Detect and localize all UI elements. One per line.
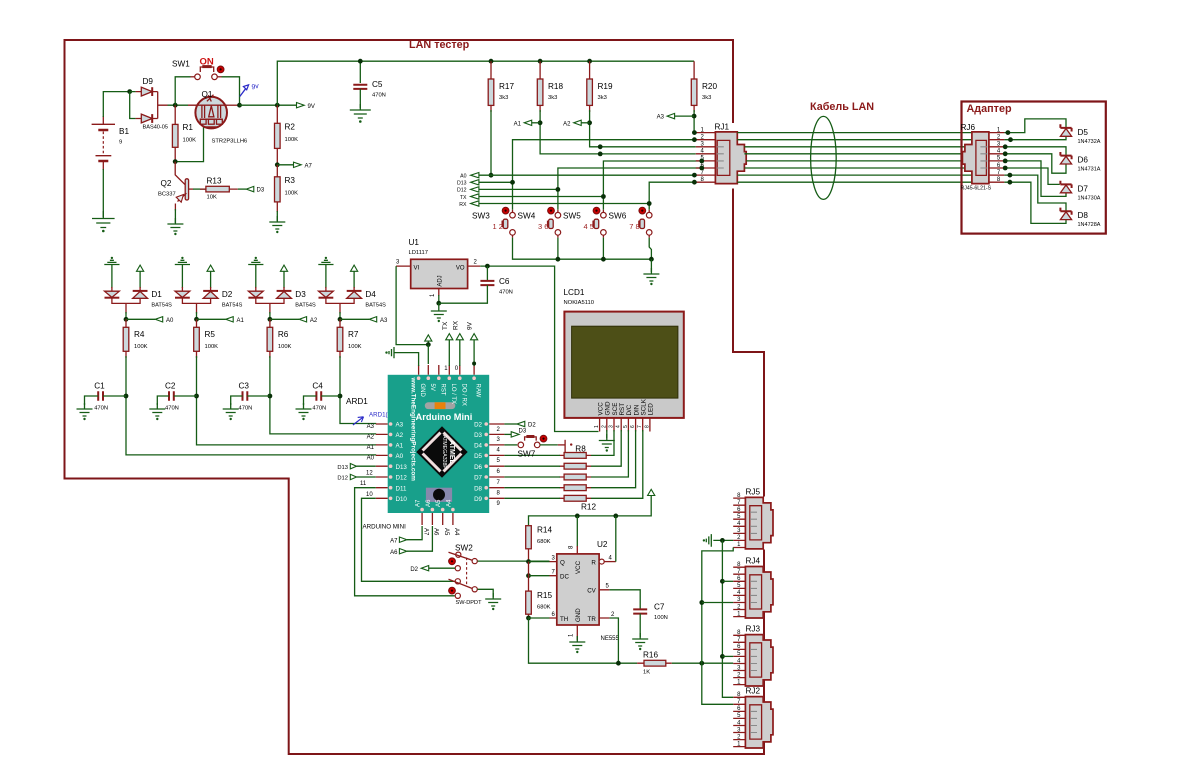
terminal A3 xyxy=(657,113,694,120)
ground (battery) xyxy=(92,211,115,228)
terminal RX up-arrow xyxy=(452,320,463,366)
svg-text:ARDUINO MINI: ARDUINO MINI xyxy=(363,524,407,531)
resistor R3 xyxy=(275,165,299,212)
svg-text:SCLK: SCLK xyxy=(641,398,648,415)
svg-text:R6: R6 xyxy=(278,330,289,339)
svg-text:www.TheEngineeringProjects.com: www.TheEngineeringProjects.com xyxy=(410,377,417,482)
connector RJ1 xyxy=(696,123,746,184)
svg-text:3k3: 3k3 xyxy=(499,95,508,101)
pins ARD1 right xyxy=(474,422,504,508)
svg-text:3k3: 3k3 xyxy=(548,95,557,101)
svg-text:LCD1: LCD1 xyxy=(564,288,585,297)
ground (Q2) xyxy=(167,218,183,231)
svg-text:SW5: SW5 xyxy=(563,212,581,221)
diode D3 (BAT54S pair) xyxy=(248,287,316,314)
ground (U2 GND) xyxy=(569,636,585,649)
svg-text:R7: R7 xyxy=(348,330,359,339)
node RJ4 pin3 xyxy=(699,600,704,605)
node C4 junction xyxy=(338,394,343,399)
svg-text:R4: R4 xyxy=(134,330,145,339)
wire battery top to D9 xyxy=(103,92,129,117)
wire U1 VI to 5V node xyxy=(396,266,428,345)
switch SW1 xyxy=(172,57,224,80)
svg-text:A1: A1 xyxy=(367,445,375,451)
node SW4 bus xyxy=(556,257,561,262)
wire Q1 gate to R1 bottom xyxy=(175,128,203,162)
svg-text:9V: 9V xyxy=(308,104,315,110)
svg-text:VCC: VCC xyxy=(575,560,582,574)
wire RJ4 pin6 xyxy=(722,580,733,582)
terminal A2 xyxy=(563,120,589,127)
svg-text:Кабель LAN: Кабель LAN xyxy=(810,101,874,113)
switch SW5 xyxy=(563,207,606,235)
svg-text:ATMEL: ATMEL xyxy=(448,440,455,464)
resistor R14 xyxy=(526,526,553,562)
svg-text:10: 10 xyxy=(366,492,373,498)
svg-text:8: 8 xyxy=(644,425,650,428)
svg-text:RJ45-6L21-S: RJ45-6L21-S xyxy=(961,186,992,192)
wire RX row to SW6 xyxy=(479,203,649,205)
wire up to SW1 left xyxy=(175,77,190,105)
pins ARD1 top xyxy=(417,365,481,406)
svg-text:SW7: SW7 xyxy=(518,450,536,459)
svg-text:LO / TX: LO / TX xyxy=(450,384,456,405)
terminal A2 tee arrow xyxy=(270,318,299,320)
svg-text:1 2: 1 2 xyxy=(493,222,503,231)
svg-text:NE555: NE555 xyxy=(601,636,620,642)
wire RJ5 pin1 jog to left vertical xyxy=(702,548,733,664)
resistor R16 xyxy=(637,651,672,676)
svg-text:R14: R14 xyxy=(537,526,552,535)
ground inverted (D1 left) xyxy=(104,260,119,288)
svg-text:D11: D11 xyxy=(396,485,407,492)
capacitor C7 xyxy=(633,603,668,638)
svg-text:A6: A6 xyxy=(426,499,432,507)
svg-text:SCE: SCE xyxy=(612,403,619,416)
wire TR to bottom line xyxy=(609,618,618,663)
svg-text:VI: VI xyxy=(414,265,420,271)
svg-text:C2: C2 xyxy=(165,382,176,391)
node R1 bottom xyxy=(173,159,178,164)
capacitor C4 xyxy=(304,382,341,412)
node A1 tee xyxy=(538,120,543,125)
svg-text:A1: A1 xyxy=(396,443,404,450)
svg-text:R5: R5 xyxy=(205,330,216,339)
svg-text:R3: R3 xyxy=(285,176,296,185)
svg-text:A1: A1 xyxy=(514,121,522,127)
svg-text:Q2: Q2 xyxy=(161,179,172,188)
svg-text:D3: D3 xyxy=(295,290,306,299)
node RJ1 pin6 xyxy=(699,166,704,171)
wire D9 out to Q1 xyxy=(158,104,196,106)
wire LAN line 1 xyxy=(737,132,972,134)
svg-text:5: 5 xyxy=(623,425,629,428)
svg-text:100K: 100K xyxy=(205,344,219,350)
wire RJ6 pin5 to D7 anode xyxy=(1004,161,1066,197)
svg-text:D1: D1 xyxy=(151,290,162,299)
svg-text:A3: A3 xyxy=(367,424,375,430)
terminal D2 (SW2) xyxy=(410,566,455,573)
svg-text:LED: LED xyxy=(648,403,655,416)
svg-text:470N: 470N xyxy=(372,93,386,99)
svg-text:VO: VO xyxy=(456,265,465,271)
svg-text:SW3: SW3 xyxy=(472,212,490,221)
svg-text:C1: C1 xyxy=(94,382,105,391)
svg-text:D8: D8 xyxy=(474,485,482,492)
node RJ6 pin6 xyxy=(1003,166,1008,171)
wire R20 bottom to pin1 xyxy=(694,110,696,133)
ground inverted (D3 left) xyxy=(248,260,263,288)
wire RJ3 pin5 xyxy=(722,655,733,657)
diode D5 zener xyxy=(1060,124,1100,145)
node RJ1 pin7 xyxy=(692,173,697,178)
connector RJ3 xyxy=(733,625,773,686)
terminal A7 xyxy=(277,162,312,169)
svg-text:D12: D12 xyxy=(396,475,408,482)
resistor R6 xyxy=(267,319,291,358)
node C1 junction xyxy=(124,394,129,399)
capacitor C3 xyxy=(231,382,270,412)
svg-text:TH: TH xyxy=(560,616,568,623)
svg-text:A7: A7 xyxy=(422,528,428,536)
resistor R20 xyxy=(691,61,717,112)
svg-text:D13: D13 xyxy=(337,465,348,471)
ground (SW common) xyxy=(643,268,659,281)
svg-text:7: 7 xyxy=(637,425,643,428)
svg-text:D7: D7 xyxy=(1078,184,1089,193)
node 5V xyxy=(426,342,431,347)
wire R6 to C3 junction and Arduino row xyxy=(270,356,376,434)
terminal A1 tee arrow xyxy=(197,318,226,320)
terminal D12 (ARD1) xyxy=(337,474,375,481)
wire Q2 emitter to ground xyxy=(174,209,176,223)
svg-text:R: R xyxy=(591,559,596,566)
ground (C7) xyxy=(632,633,648,646)
node RJ6 pin5 xyxy=(1003,159,1008,164)
svg-text:RJ2: RJ2 xyxy=(746,687,761,696)
ground inverted (D4 left) xyxy=(318,260,333,288)
svg-text:RX: RX xyxy=(459,202,467,208)
svg-text:BAT54S: BAT54S xyxy=(295,303,316,309)
transistor Q2 BC337 xyxy=(158,162,193,211)
wire LAN line 7 xyxy=(737,174,972,176)
svg-text:D5: D5 xyxy=(474,453,482,460)
wire SW2 pole1 to U2 Q xyxy=(478,560,550,562)
node RJ6 pin7 xyxy=(1008,173,1013,178)
svg-text:RJ1: RJ1 xyxy=(715,123,730,132)
terminal TX (left) xyxy=(460,194,479,201)
wire R4 to C1 junction and Arduino row xyxy=(126,356,376,455)
wire R3 to ground xyxy=(276,211,278,221)
terminal TX up-arrow xyxy=(442,321,453,366)
wire RJ6 pin8 to D8 anode xyxy=(1004,182,1066,223)
svg-text:A7: A7 xyxy=(305,163,313,169)
svg-text:RX: RX xyxy=(452,320,459,330)
svg-text:STR2P3LLH6: STR2P3LLH6 xyxy=(212,139,248,145)
node RJ6 pin8 xyxy=(1008,180,1013,185)
node TR bottom xyxy=(616,661,621,666)
display LCD1 NOKIA5110 xyxy=(564,288,684,432)
timer U2 NE555 xyxy=(550,540,620,642)
node RJ5 pin2 xyxy=(720,538,725,543)
wire U1 VO to LCD VCC xyxy=(480,266,598,431)
svg-text:D8: D8 xyxy=(1078,211,1089,220)
terminal 9V output xyxy=(297,103,315,110)
terminal 9V up-arrow (RAW) xyxy=(467,321,478,366)
svg-text:R2: R2 xyxy=(285,123,296,132)
terminal D3 (ARD1) xyxy=(504,429,526,438)
wire SW6 column to RJ1 pin8 xyxy=(649,182,696,210)
wire ARD1 row to resistor xyxy=(504,454,560,456)
svg-text:100K: 100K xyxy=(134,344,148,350)
resistor R15 xyxy=(526,562,553,618)
node DC row xyxy=(526,573,531,578)
svg-text:VCC: VCC xyxy=(597,402,604,416)
svg-text:7 8: 7 8 xyxy=(629,222,639,231)
node C3 junction xyxy=(268,394,273,399)
svg-text:D2: D2 xyxy=(410,567,418,573)
switch SW3 xyxy=(472,207,515,235)
svg-text:D2: D2 xyxy=(474,422,482,429)
resistor R4 xyxy=(123,319,147,358)
svg-text:TX: TX xyxy=(442,321,449,330)
svg-text:A5: A5 xyxy=(443,528,449,536)
diode D8 zener xyxy=(1060,208,1100,229)
svg-text:1N4731A: 1N4731A xyxy=(1078,167,1101,173)
wire ARD1 D10 to SW2 xyxy=(362,498,455,581)
svg-text:GND: GND xyxy=(605,401,612,415)
svg-text:R17: R17 xyxy=(499,82,514,91)
svg-text:RST: RST xyxy=(439,384,445,396)
terminal A6 (ARD1 bottom) xyxy=(390,526,432,556)
svg-text:680K: 680K xyxy=(537,539,551,545)
svg-text:A2: A2 xyxy=(396,432,404,439)
node U2 VCC xyxy=(575,514,580,519)
adapter box Адаптер xyxy=(962,102,1106,234)
node RJ6 pin3 xyxy=(1003,144,1008,149)
svg-text:D3: D3 xyxy=(474,432,482,439)
svg-text:D9: D9 xyxy=(143,77,154,86)
wire D13 row to SW3 xyxy=(479,181,513,183)
svg-text:D6: D6 xyxy=(474,464,482,471)
svg-text:680K: 680K xyxy=(537,605,551,611)
svg-text:6: 6 xyxy=(630,425,636,428)
node SW4/D12 xyxy=(556,187,561,192)
ground (C2) xyxy=(149,403,165,416)
resistor R17 xyxy=(488,59,514,112)
connector RJ2 xyxy=(733,687,773,748)
node C6 top xyxy=(485,264,490,269)
svg-text:C7: C7 xyxy=(654,603,665,612)
svg-text:D9: D9 xyxy=(474,496,482,503)
wire LAN line 5 xyxy=(746,160,962,162)
wire ARD1 row to resistor xyxy=(504,476,560,478)
ground rotated (ARD1 GND) xyxy=(389,347,396,358)
svg-text:D10: D10 xyxy=(396,496,408,503)
svg-text:100N: 100N xyxy=(654,615,668,621)
node A7 tee xyxy=(275,162,280,167)
svg-text:100K: 100K xyxy=(285,137,299,143)
svg-text:1N4730A: 1N4730A xyxy=(1078,195,1101,201)
terminal up-arrow (U2 VCC) xyxy=(648,489,655,495)
svg-text:C6: C6 xyxy=(499,277,510,286)
switch SW2 SW-DPDT xyxy=(449,544,483,607)
svg-text:A2: A2 xyxy=(310,318,318,324)
svg-text:A7: A7 xyxy=(416,499,422,507)
capacitor C6 xyxy=(439,266,513,303)
node RJ6 pin2 xyxy=(1008,137,1013,142)
wire RJ6 pin6 to D7 cathode xyxy=(1004,168,1059,184)
wire CV to C7 xyxy=(609,590,640,609)
wire TX row to SW5 xyxy=(479,196,604,198)
svg-text:LD1117: LD1117 xyxy=(409,250,428,256)
wire A0 row to RJ1 pin7 xyxy=(479,174,696,176)
wire SW6 bottom jog to bus xyxy=(648,235,650,237)
svg-text:RAW: RAW xyxy=(475,384,481,398)
svg-text:9V: 9V xyxy=(467,321,474,330)
svg-text:ARD1: ARD1 xyxy=(346,397,368,406)
svg-text:D13: D13 xyxy=(457,181,467,187)
terminal up-arrow (D1 right) xyxy=(137,265,144,271)
terminal D3 xyxy=(238,186,265,193)
svg-text:RJ5: RJ5 xyxy=(746,488,761,497)
svg-text:SW6: SW6 xyxy=(609,212,627,221)
ground (R3) xyxy=(269,216,285,229)
svg-text:1N4728A: 1N4728A xyxy=(1078,222,1101,228)
wire RJ4 pin3 xyxy=(702,602,733,604)
svg-text:A3: A3 xyxy=(657,115,665,121)
svg-text:9: 9 xyxy=(119,140,122,146)
svg-text:BAS40-05: BAS40-05 xyxy=(143,125,169,131)
svg-text:R16: R16 xyxy=(643,651,658,660)
node A2 tee xyxy=(587,120,592,125)
diode D7 zener xyxy=(1060,181,1100,202)
svg-text:D4: D4 xyxy=(474,443,482,450)
wire SW3 column to RJ1 pin2 xyxy=(513,140,696,210)
wire ARD1 row to resistor xyxy=(504,497,560,499)
diode D9 (BAS40-05 dual) xyxy=(130,77,168,131)
svg-text:3 6: 3 6 xyxy=(538,222,548,231)
node R2 top xyxy=(275,103,280,108)
wire LAN line 6 xyxy=(744,167,965,169)
terminal D13 (ARD1) xyxy=(337,464,375,471)
svg-text:3: 3 xyxy=(609,425,615,428)
node SW6/RX xyxy=(647,201,652,206)
node A2 tee xyxy=(269,312,271,319)
ground inverted (D2 left) xyxy=(175,260,190,288)
svg-text:12: 12 xyxy=(366,471,373,477)
svg-text:R19: R19 xyxy=(598,82,613,91)
svg-text:RST: RST xyxy=(619,403,626,416)
resistor R19 xyxy=(587,59,613,112)
svg-text:11: 11 xyxy=(360,481,367,487)
svg-text:RJ4: RJ4 xyxy=(746,557,761,566)
svg-text:A3: A3 xyxy=(380,318,388,324)
node RJ1 pin2 xyxy=(692,137,697,142)
node bus end xyxy=(649,257,654,262)
wire R17 bottom to A0 row xyxy=(490,110,492,175)
capacitor C5 xyxy=(353,59,386,108)
wire drain to R2 node and 9V terminal xyxy=(240,104,297,106)
node drain xyxy=(237,103,242,108)
svg-text:ATMEGA328P: ATMEGA328P xyxy=(441,435,447,469)
svg-text:D7: D7 xyxy=(474,475,482,482)
node RJ1 pin1 xyxy=(692,130,697,135)
svg-text:A4: A4 xyxy=(453,528,459,536)
wire left vertical to RJ2 pin7 xyxy=(702,663,733,704)
ground (SW2) xyxy=(485,593,501,606)
svg-text:SW1: SW1 xyxy=(172,60,190,69)
terminal D2 (ARD1) xyxy=(504,421,536,428)
resistor R13 xyxy=(193,177,238,201)
resistor network R8/R12 xyxy=(560,440,597,512)
svg-text:A4: A4 xyxy=(446,499,452,507)
svg-text:D/C: D/C xyxy=(626,404,633,415)
svg-text:A7: A7 xyxy=(390,538,398,544)
node TH row xyxy=(526,616,531,621)
svg-text:A2: A2 xyxy=(563,121,571,127)
wire R16 to RJ3 pin4 xyxy=(672,662,733,664)
svg-text:TR: TR xyxy=(588,616,597,623)
wire LCD pin6 to resistor row xyxy=(591,430,636,488)
ground (C5) xyxy=(350,104,371,118)
wire SW1 right down to drain node xyxy=(217,76,221,78)
cable ellipse Кабель LAN xyxy=(811,116,837,199)
wire U2 R to VCC line xyxy=(615,516,617,562)
svg-text:10K: 10K xyxy=(207,195,217,201)
node U2 R xyxy=(613,514,618,519)
svg-text:100K: 100K xyxy=(183,138,197,144)
transistor Q1 STR2P3LLH6 xyxy=(195,90,247,145)
svg-text:BAT54S: BAT54S xyxy=(365,303,386,309)
wire VCC line (R14 top) xyxy=(529,496,652,526)
regulator U1 LD1117 xyxy=(396,238,480,297)
terminal RX (left) xyxy=(459,201,479,208)
node A1 tee xyxy=(196,312,198,319)
probe arrow 9v blue xyxy=(240,83,260,97)
terminal A0 (left) xyxy=(460,173,479,180)
connector RJ4 xyxy=(733,557,773,618)
svg-text:D12: D12 xyxy=(337,476,348,482)
pins ARD1 bottom xyxy=(363,499,460,536)
svg-text:DIN: DIN xyxy=(633,404,640,415)
svg-text:C4: C4 xyxy=(312,382,323,391)
wire SW5 column to row5 xyxy=(603,161,702,210)
svg-text:GND: GND xyxy=(575,608,582,622)
wire SW4 bottom to bus xyxy=(557,235,559,237)
svg-text:A0: A0 xyxy=(166,318,174,324)
node SW3/D13 xyxy=(510,180,515,185)
diode D1 (BAT54S pair) xyxy=(105,287,173,314)
node on row4 xyxy=(598,152,603,157)
svg-text:R13: R13 xyxy=(207,177,222,186)
terminal D13 (left) xyxy=(457,180,479,187)
wire LAN line 8 xyxy=(737,181,972,183)
node D9 input junction xyxy=(127,89,132,94)
sheet border frame xyxy=(65,40,765,754)
node RJ1 pin5 xyxy=(699,159,704,164)
node RJ3 pin5 xyxy=(720,654,725,659)
wire TH row and down to bottom line xyxy=(529,618,638,663)
svg-text:CV: CV xyxy=(587,588,596,595)
node A3 tee xyxy=(339,312,341,319)
svg-text:U1: U1 xyxy=(409,238,420,247)
ground (LCD GND) xyxy=(599,434,615,448)
wire LCD pin7 to resistor row xyxy=(591,430,643,498)
wire LCD pin3 to resistor row xyxy=(591,430,614,455)
resistor R2 xyxy=(275,105,299,165)
wire DC row xyxy=(529,575,550,577)
